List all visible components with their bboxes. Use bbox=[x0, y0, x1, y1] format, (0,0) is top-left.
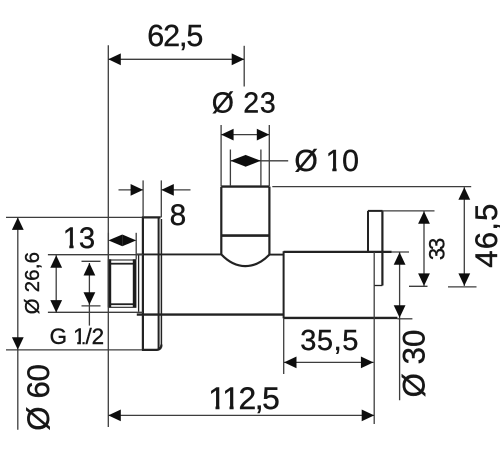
thread right end (thick) bbox=[133, 259, 136, 307]
knob bottom arc bbox=[221, 254, 269, 266]
Ø10 dimension + leader to label bbox=[230, 160, 288, 162]
right section (Ø30) top edge bbox=[284, 251, 392, 253]
outlet pipe left edge bbox=[367, 211, 369, 252]
112,5 dimension line bbox=[108, 414, 374, 416]
33 arrows bbox=[418, 211, 430, 224]
35,5 left extension (below step) bbox=[283, 318, 285, 374]
svg-text:33: 33 bbox=[425, 238, 450, 260]
33 dimension line bbox=[423, 211, 425, 286]
svg-text:62,5: 62,5 bbox=[147, 19, 203, 53]
threaded nipple G 1/2 outer thread crest bbox=[108, 260, 135, 307]
Ø30 dimension line bbox=[399, 252, 401, 400]
Ø23 left extension bbox=[220, 125, 222, 186]
svg-text:Ø 30: Ø 30 bbox=[397, 330, 432, 398]
knob left edge bbox=[220, 187, 222, 255]
46,5 arrows bbox=[458, 187, 470, 200]
Ø30 bottom extension bbox=[397, 318, 412, 320]
Ø23 dimension line bbox=[221, 134, 269, 136]
body mid-section top edge (right of knob) bbox=[269, 254, 283, 256]
Ø26,6 top extension bbox=[48, 254, 143, 256]
Ø60 arrows bbox=[12, 217, 24, 230]
svg-text:13: 13 bbox=[63, 223, 95, 255]
Ø60 bottom extension bbox=[6, 349, 142, 351]
62,5 dimension line bbox=[108, 58, 244, 60]
Ø10 left extension bbox=[229, 150, 231, 187]
35,5 dimension line bbox=[284, 361, 373, 363]
46,5 dimension line bbox=[463, 187, 465, 286]
knob mid joint line bbox=[221, 234, 269, 237]
8 left extension bbox=[142, 180, 144, 217]
35,5 arrows bbox=[284, 357, 297, 369]
svg-text:46,5: 46,5 bbox=[469, 204, 500, 268]
G 1/2 short extension ticks bbox=[82, 260, 101, 262]
13 double arrow bbox=[108, 235, 122, 247]
step between mid and right section bbox=[283, 251, 285, 318]
62,5 arrows bbox=[108, 53, 121, 65]
outlet pipe right edge bbox=[381, 211, 383, 286]
svg-text:8: 8 bbox=[170, 199, 187, 232]
svg-text:35,5: 35,5 bbox=[300, 325, 358, 357]
vertical outlet pipe top edge bbox=[368, 210, 383, 212]
13 right extension bbox=[135, 233, 137, 260]
svg-text:Ø 10: Ø 10 bbox=[294, 145, 359, 178]
body mid-section top edge (left of knob) bbox=[137, 253, 222, 255]
thread left end face (thick) bbox=[108, 259, 112, 307]
Ø26,6 dimension line bbox=[55, 255, 57, 312]
62,5 right extension (knob centerline) bbox=[243, 46, 245, 87]
G 1/2 dimension line bbox=[88, 263, 90, 326]
46,5 top extension (from knob top) bbox=[272, 186, 471, 188]
body mid-section bottom edge bbox=[137, 313, 284, 315]
svg-text:G 1/2: G 1/2 bbox=[50, 324, 105, 349]
Ø23 arrows bbox=[221, 129, 234, 141]
Ø30 top extension bbox=[392, 251, 409, 253]
centreline extension (for 33 and 46,5) bbox=[409, 285, 428, 287]
knob top edge bbox=[221, 185, 269, 187]
svg-text:112,5: 112,5 bbox=[208, 380, 279, 416]
outlet pipe inner bottom edge bbox=[374, 285, 382, 287]
35,5 / 112,5 right extension bbox=[373, 252, 375, 424]
svg-text:Ø 60: Ø 60 bbox=[21, 364, 56, 431]
Ø23 right extension bbox=[268, 125, 270, 186]
neck line between thread and flange bbox=[138, 255, 140, 312]
Ø26,6 bottom extension bbox=[48, 311, 143, 313]
8 left leader bbox=[119, 189, 144, 191]
Ø10 right extension bbox=[260, 150, 262, 187]
wall flange (escutcheon) bbox=[142, 217, 162, 350]
Ø60 top extension bbox=[6, 216, 142, 218]
Ø60 dimension line bbox=[17, 218, 19, 430]
knob right edge bbox=[268, 187, 270, 255]
8 right leader bbox=[161, 189, 190, 191]
13 left extension bbox=[107, 233, 109, 259]
62,5 left extension + 112,5 left extension (wall reference line) bbox=[107, 45, 109, 427]
threaded nipple inner (root) bbox=[109, 264, 135, 305]
8 right extension bbox=[160, 180, 162, 217]
Ø26,6 arrows bbox=[50, 255, 62, 268]
right section (Ø30) bottom edge bbox=[284, 317, 398, 319]
G 1/2 arrows bbox=[84, 263, 96, 276]
33 top extension (from pipe) bbox=[383, 210, 435, 212]
Ø10 arrows bbox=[230, 155, 245, 167]
112,5 arrows bbox=[108, 410, 121, 422]
8 arrows (outside, pointing inward) bbox=[131, 184, 144, 196]
svg-text:Ø 26,6: Ø 26,6 bbox=[22, 252, 44, 314]
svg-text:Ø 23: Ø 23 bbox=[212, 88, 276, 120]
Ø30 arrows bbox=[394, 252, 406, 264]
white covers to remove Liberation Sans "1" foot serifs (target font has footless 1) bbox=[64, 167, 342, 410]
